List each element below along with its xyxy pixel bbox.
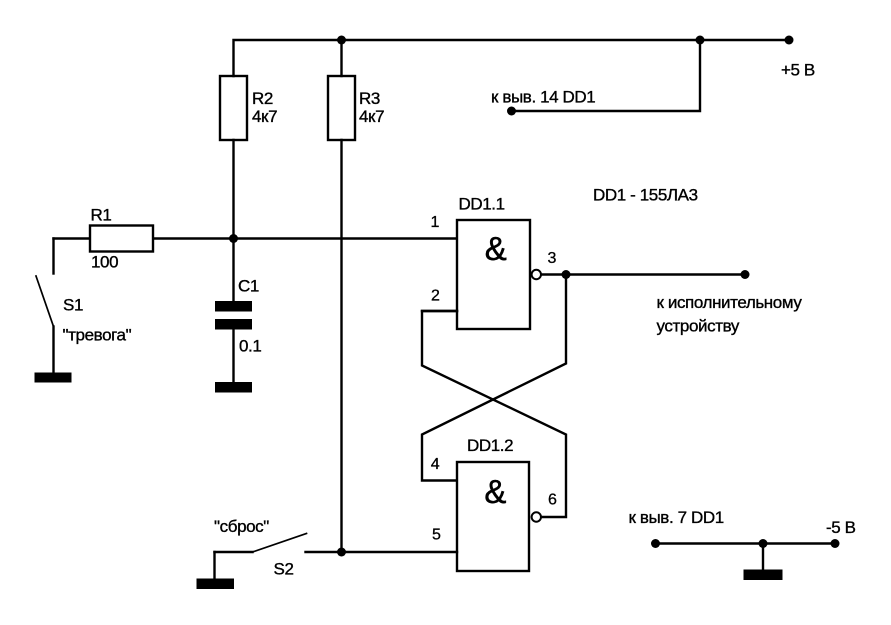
svg-text:2: 2 [431,287,440,304]
svg-text:&: & [484,473,506,510]
wire R2 bottom lead [232,140,234,239]
svg-text:-5 В: -5 В [826,518,856,537]
svg-text:100: 100 [91,252,118,271]
wire pin 2 stub [422,310,457,312]
wire branch to pin 14 DD1 [512,40,701,111]
ground -5V rail [744,570,783,581]
capacitor C1 plate bottom [215,319,252,330]
resistor R2 body [220,76,247,140]
svg-text:к исполнительному: к исполнительному [657,293,803,312]
svg-text:0.1: 0.1 [239,336,261,355]
capacitor C1 plate top [215,301,252,312]
svg-text:DD1.1: DD1.1 [459,194,505,213]
node junction R3 on +5V rail [337,36,346,45]
svg-text:S2: S2 [274,559,294,578]
svg-text:4к7: 4к7 [359,107,384,126]
wire R3 top lead [340,40,342,76]
wire C1 bottom lead [232,330,234,383]
wire S1 bottom lead [52,327,54,373]
svg-text:4: 4 [431,456,440,473]
node junction pin 3 [562,270,571,279]
wire R3 bottom lead to S2 node [340,140,342,552]
op-amp U1 gate DD1.1 body [457,220,530,329]
transistor bubble DD1.1 output inverter circle [532,270,541,279]
svg-text:DD1 - 155ЛА3: DD1 - 155ЛА3 [593,185,698,204]
wire ground lead -5V rail [762,544,764,570]
node +5V terminal dot [785,36,794,45]
svg-text:5: 5 [432,526,441,543]
transistor bubble DD1.2 output inverter circle [532,512,541,521]
wire main node to pin 1 [54,237,458,239]
node -5V terminal dot [831,539,840,548]
svg-text:S1: S1 [63,295,83,314]
svg-text:R2: R2 [252,89,273,108]
wire -5V rail pin 7 [656,542,836,544]
wire output pin 3 [542,273,746,275]
op-amp U2 gate DD1.2 body [457,462,529,571]
svg-text:R3: R3 [359,89,380,108]
svg-text:DD1.2: DD1.2 [467,436,513,455]
resistor R3 body [328,76,355,140]
wire C1 top lead [232,239,234,302]
svg-text:&: & [485,230,507,267]
svg-text:+5 В: +5 В [781,61,815,80]
svg-text:"сброс": "сброс" [214,517,269,536]
svg-text:R1: R1 [91,205,112,224]
node junction R3 S2 pin5 [337,548,346,557]
svg-text:3: 3 [548,250,557,267]
wire S2 ground lead [213,552,215,579]
wire top +5V rail [234,40,790,76]
node junction R1 R2 C1 [229,234,238,243]
svg-text:"тревога": "тревога" [63,325,132,344]
wire pin 5 from S2 node [306,551,458,553]
svg-text:1: 1 [431,214,440,231]
switch S2 blade [253,534,307,553]
wire cross coupling pin3 to pin4 [422,275,566,481]
node junction +5V branch on rail [696,36,705,45]
wire cross coupling pin2 to pin6 [422,311,566,517]
svg-text:к выв. 7 DD1: к выв. 7 DD1 [629,508,724,527]
wire S1 top lead [52,239,54,274]
wire S2 left contact [215,551,253,553]
node junction ground on -5V rail [759,539,768,548]
resistor R1 body [90,226,153,252]
switch S1 blade [36,276,54,327]
svg-text:к выв. 14 DD1: к выв. 14 DD1 [491,87,595,106]
ground S2 [197,579,235,590]
node output terminal dot [741,270,750,279]
node pin14 terminal dot [507,107,516,116]
svg-text:устройству: устройству [657,316,740,335]
svg-text:6: 6 [548,491,557,508]
ground S1 [35,373,72,383]
svg-text:4к7: 4к7 [252,107,277,126]
ground C1 [215,382,252,393]
svg-text:C1: C1 [238,276,259,295]
node pin7 terminal dot [651,539,660,548]
